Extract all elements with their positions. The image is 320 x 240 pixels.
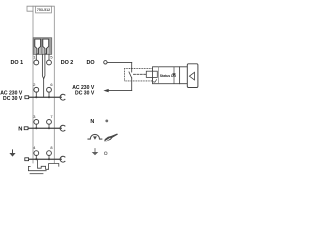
- terminal 1 stem: [35, 54, 37, 60]
- AC bus wire: [29, 96, 62, 98]
- svg-text:3: 3: [33, 114, 35, 119]
- terminal 1 circle: [34, 60, 39, 65]
- module housing outline: [33, 6, 54, 163]
- clamp spring dark streak left: [34, 38, 35, 54]
- AC bus left lug: [25, 96, 29, 99]
- svg-text:1: 1: [33, 55, 35, 60]
- junction dot terminal 3: [35, 127, 37, 129]
- earth down arrow left: [12, 150, 14, 153]
- clamp spring dark streak right: [49, 38, 51, 54]
- junction dot terminal 8: [48, 158, 50, 160]
- module side profile box: [187, 64, 198, 88]
- relay contact switch: [129, 72, 132, 78]
- terminal 7 stem to N bus: [48, 124, 50, 128]
- svg-text:753-512: 753-512: [37, 8, 50, 12]
- status box inner divider: [158, 67, 160, 84]
- LED triangle: [172, 73, 175, 77]
- terminal 8 circle: [47, 151, 52, 156]
- svg-text:2: 2: [33, 82, 35, 87]
- terminal 4 stem to earth bus: [35, 155, 37, 159]
- voltage arrowhead: [103, 89, 108, 92]
- module latch top-left: [27, 6, 33, 11]
- N bus wire: [28, 127, 61, 129]
- legend operating tool: [104, 134, 118, 142]
- terminal 8 stem to earth bus: [48, 155, 50, 159]
- DIN rail profile (ground): [38, 159, 59, 169]
- relay coil bar (middle): [42, 54, 45, 79]
- junction dot terminal 2: [35, 96, 37, 98]
- svg-text:DO 1: DO 1: [11, 60, 24, 66]
- N bus left lug: [24, 127, 28, 130]
- svg-text:6: 6: [50, 82, 52, 87]
- relay coil box: [146, 71, 157, 77]
- terminal 5 circle: [47, 60, 52, 65]
- terminal 3 circle: [34, 120, 39, 125]
- junction dot terminal 4: [35, 158, 37, 160]
- earth bus wire: [29, 158, 62, 160]
- svg-text:5: 5: [50, 55, 52, 60]
- svg-text:7: 7: [50, 114, 52, 119]
- dashed contact box: [125, 69, 153, 81]
- LED line in status box: [173, 67, 175, 84]
- terminal 5 stem: [48, 54, 50, 60]
- clamp spring dark streak middle: [41, 38, 43, 54]
- terminal 2 stem to AC bus: [35, 92, 37, 97]
- module label box 753-512: [36, 6, 52, 13]
- junction dot terminal 7: [48, 127, 50, 129]
- legend ring: [104, 152, 107, 155]
- terminal 6 circle: [47, 87, 52, 92]
- terminal 7 circle: [47, 120, 52, 125]
- right circuit top terminal: [104, 61, 107, 64]
- terminal 3 stem to N bus: [35, 124, 37, 128]
- link status box to module profile: [180, 67, 188, 84]
- svg-text:DC 30 V: DC 30 V: [3, 96, 23, 102]
- svg-text:DO: DO: [87, 60, 95, 66]
- svg-text:DO 2: DO 2: [61, 60, 74, 66]
- svg-text:DC 30 V: DC 30 V: [75, 91, 95, 97]
- N bus right arc: [60, 125, 65, 131]
- junction dot terminal 6: [48, 96, 50, 98]
- terminal 6 stem to AC bus: [48, 92, 50, 97]
- wire top terminal to corner: [107, 61, 131, 63]
- clamp block (grey connector): [33, 38, 52, 55]
- wire middle down to AC bus: [43, 79, 45, 97]
- voltage arrow tail: [108, 90, 131, 92]
- earth bus left lug: [25, 158, 29, 161]
- small mark in status box bottom: [153, 80, 157, 83]
- svg-text:N: N: [18, 126, 22, 132]
- mech coupling dash line: [134, 73, 147, 75]
- legend down arrow: [94, 149, 96, 153]
- wire vertical right: [131, 62, 133, 72]
- AC bus right arc: [60, 94, 65, 100]
- terminal 2 circle: [34, 87, 39, 92]
- clamp funnel right: [43, 39, 49, 54]
- legend arc symbol: [88, 134, 102, 139]
- status box: [153, 67, 180, 84]
- svg-text:8: 8: [50, 145, 52, 150]
- clamp funnel left: [35, 39, 41, 54]
- earth bus right arc: [60, 156, 65, 162]
- LED triangle on profile: [189, 72, 194, 80]
- terminal 4 circle: [34, 151, 39, 156]
- legend filled dot: [105, 120, 108, 123]
- svg-text:N: N: [90, 119, 94, 125]
